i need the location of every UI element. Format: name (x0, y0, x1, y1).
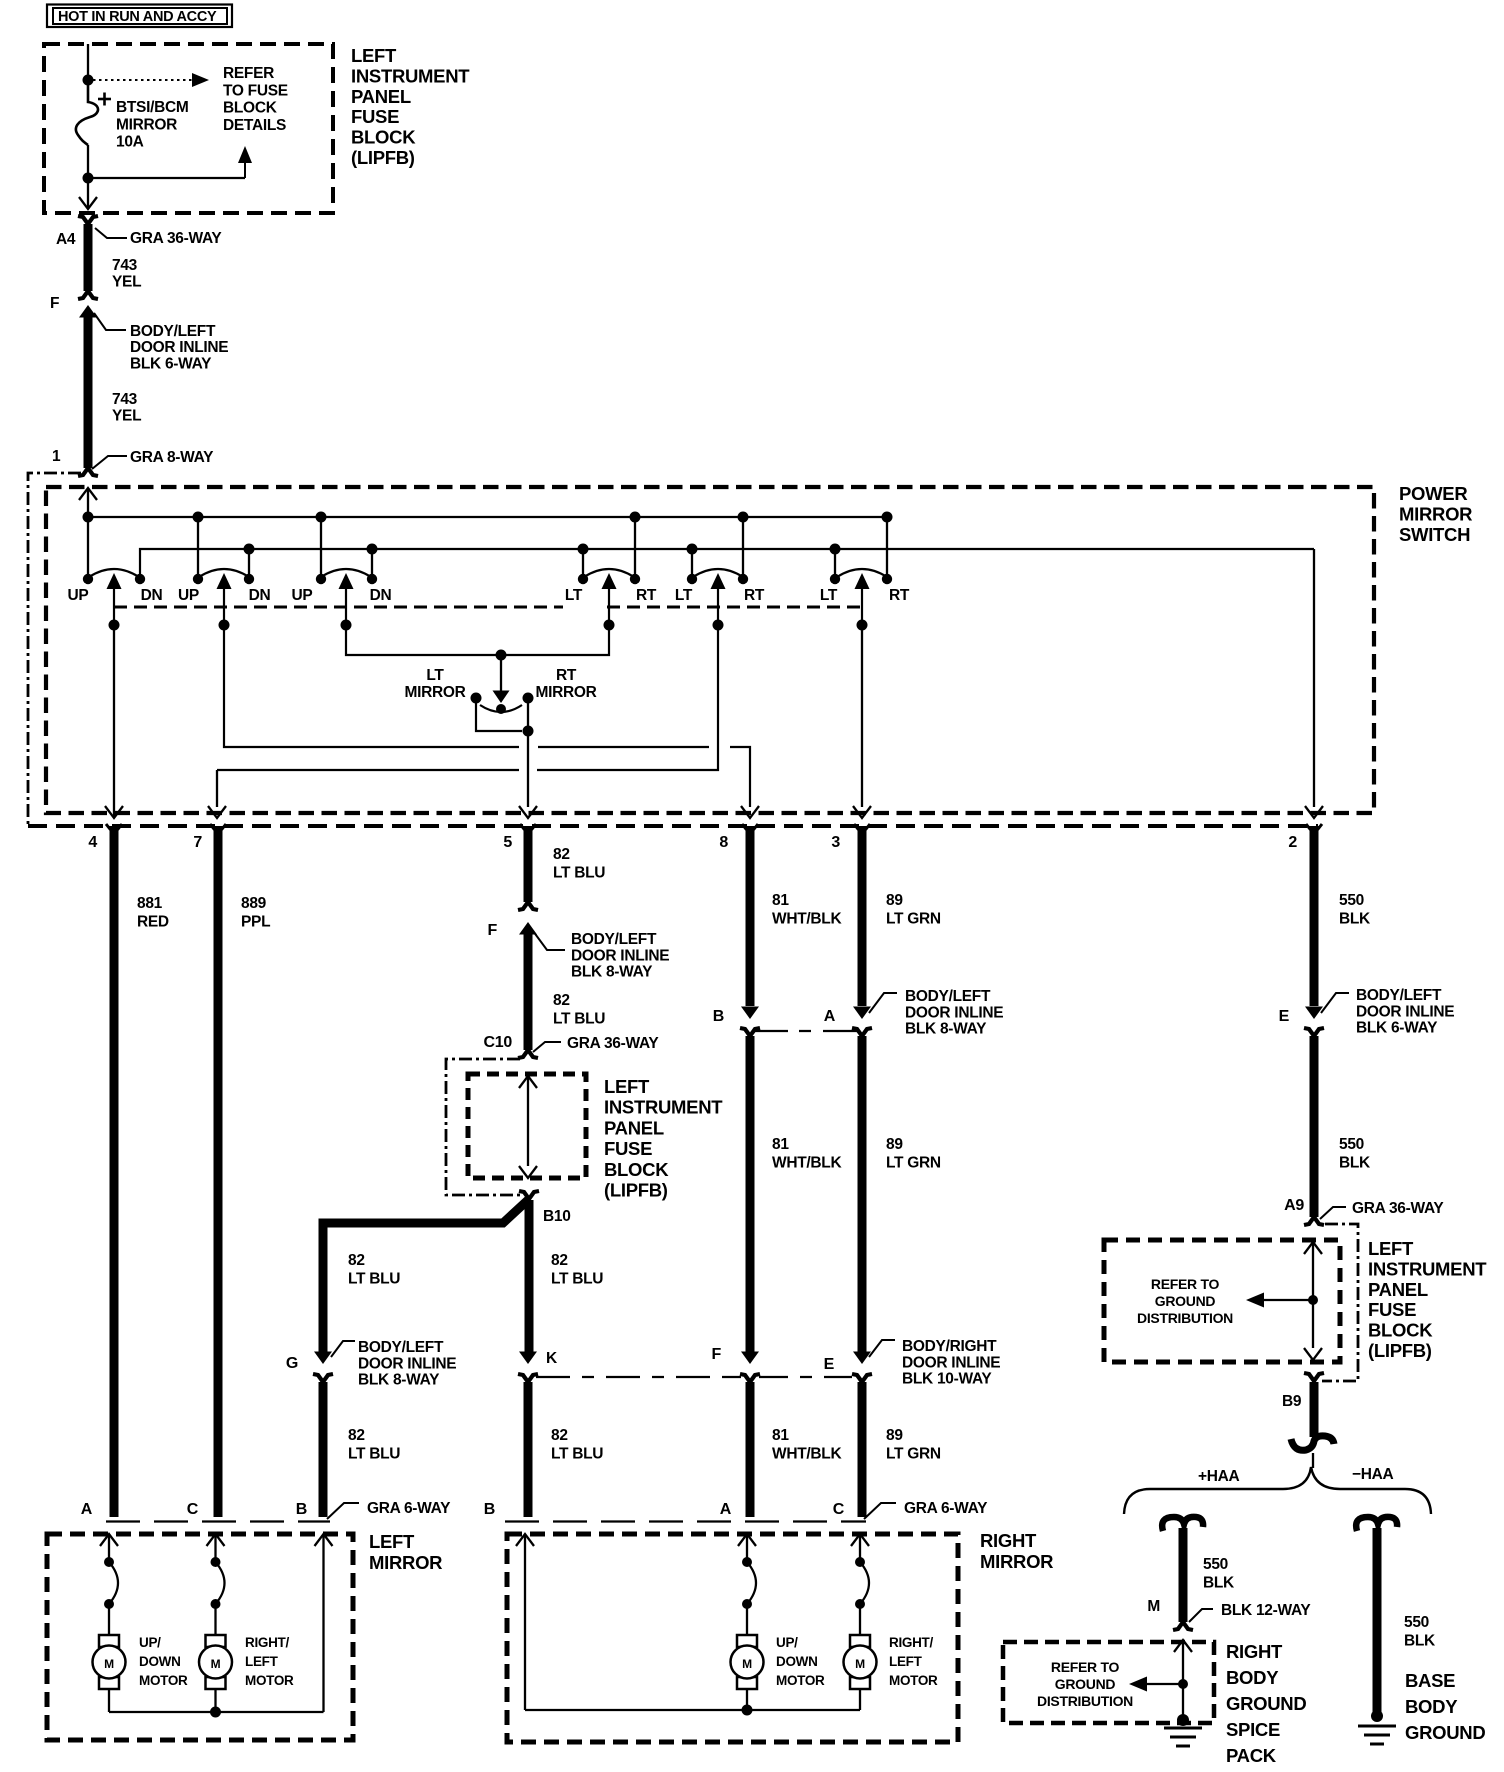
svg-text:BLK: BLK (1339, 1155, 1371, 1172)
spice pack junction dot (1178, 1679, 1188, 1689)
svg-text:MOTOR: MOTOR (889, 1673, 938, 1688)
svg-text:GRA 6-WAY: GRA 6-WAY (904, 1500, 988, 1517)
refer-to-fuse-block arrow 2 (90, 177, 245, 179)
svg-text:FUSE: FUSE (351, 106, 399, 127)
svg-text:DISTRIBUTION: DISTRIBUTION (1137, 1310, 1233, 1326)
wire 881 RED (pin4) (110, 826, 119, 1517)
right mirror pin A wire + switch (738, 1534, 756, 1546)
ground wire left hook (1162, 1517, 1203, 1531)
svg-text:81: 81 (772, 1427, 789, 1444)
ground symbol base body (1371, 1710, 1383, 1722)
branch to G wire (323, 1199, 529, 1353)
wire 889 PPL (pin7) (214, 826, 223, 1517)
wire top bus to contact RT5 (742, 517, 744, 578)
LIPFB middle dash-dot contour (446, 1059, 521, 1195)
svg-text:(LIPFB): (LIPFB) (604, 1180, 668, 1201)
wire 89 LT GRN to right mirror C (858, 1382, 867, 1517)
svg-text:MIRROR: MIRROR (116, 116, 177, 133)
leader GRA 6-WAY right (864, 1503, 896, 1519)
svg-text:82: 82 (553, 992, 570, 1009)
brace +HAA/-HAA (1124, 1467, 1431, 1514)
spice pack entry arrow (1174, 1640, 1192, 1652)
svg-text:B: B (296, 1501, 307, 1518)
LIPFB right dashed box (1104, 1240, 1340, 1362)
wire to right body ground (1182, 1684, 1184, 1722)
pin wire top flare x=862 (854, 824, 870, 829)
svg-text:1: 1 (52, 448, 61, 465)
svg-text:PANEL: PANEL (604, 1117, 664, 1138)
leader GRA 36-WAY (C10) (533, 1042, 561, 1052)
bus dot 6 (882, 512, 893, 523)
second bus dot 2 (367, 544, 378, 555)
refer-to-fuse-block arrow (dotted) (93, 79, 196, 81)
LIPFB right internal junction dot (1308, 1295, 1318, 1305)
wire 81 WHT/BLK to right mirror A (746, 1382, 755, 1517)
refer-to-ground arrow (spice pack) (1142, 1683, 1183, 1685)
svg-text:82: 82 (348, 1252, 365, 1269)
svg-text:BASE: BASE (1405, 1670, 1455, 1691)
wire second bus to contact LT4 (582, 549, 584, 578)
up/down motor (right mirror) (737, 1635, 757, 1647)
connector F fishtail lower (740, 1374, 760, 1382)
svg-text:M: M (104, 1657, 114, 1671)
switch pivot 1 (left mirror up/down) (89, 569, 139, 577)
wire pivot4 to selector junction (505, 625, 609, 655)
connector E arrowhead (wire3) (853, 1352, 871, 1365)
LIPFB right internal wire (1304, 1242, 1322, 1254)
connector B arrowhead (741, 1007, 759, 1020)
svg-text:RIGHT/: RIGHT/ (889, 1635, 933, 1650)
svg-text:B9: B9 (1282, 1393, 1302, 1410)
wire pivot1 to pin4 (113, 625, 115, 818)
pin wire top flare x=1314 (1306, 824, 1322, 829)
svg-text:MIRROR: MIRROR (1399, 504, 1472, 525)
second bus dot 3 (578, 544, 589, 555)
svg-text:5: 5 (503, 834, 512, 851)
svg-text:DN: DN (141, 587, 163, 604)
svg-text:89: 89 (886, 892, 903, 909)
svg-text:889: 889 (241, 895, 267, 912)
right mirror pin C wire + switch (851, 1534, 869, 1546)
switch top bus (88, 516, 889, 518)
svg-text:BLOCK: BLOCK (223, 100, 278, 117)
pin wire top flare x=750 (742, 824, 758, 829)
svg-text:WHT/BLK: WHT/BLK (772, 1446, 842, 1463)
svg-text:LEFT: LEFT (369, 1531, 415, 1552)
svg-text:BLK 6-WAY: BLK 6-WAY (130, 355, 212, 372)
svg-text:LT GRN: LT GRN (886, 911, 941, 928)
svg-text:B: B (713, 1008, 724, 1025)
svg-text:M: M (855, 1657, 865, 1671)
connector E fishtail (wire2) (1304, 1028, 1324, 1036)
svg-text:LT: LT (426, 667, 444, 684)
svg-text:MIRROR: MIRROR (980, 1551, 1053, 1572)
svg-text:WHT/BLK: WHT/BLK (772, 1155, 842, 1172)
connector B10 fishtail (519, 1191, 539, 1199)
svg-text:F: F (712, 1346, 722, 1363)
svg-text:C: C (833, 1501, 845, 1518)
svg-text:B10: B10 (543, 1208, 571, 1225)
svg-text:BODY/RIGHT: BODY/RIGHT (902, 1338, 997, 1355)
svg-text:BODY/LEFT: BODY/LEFT (571, 931, 657, 948)
svg-text:DETAILS: DETAILS (223, 117, 286, 134)
svg-text:SPICE: SPICE (1226, 1719, 1280, 1740)
left instrument panel fuse block (LIPFB) box (44, 44, 333, 213)
right mirror bottom wire (746, 1689, 748, 1710)
svg-text:FUSE: FUSE (604, 1138, 652, 1159)
svg-text:INSTRUMENT: INSTRUMENT (351, 65, 470, 86)
svg-text:YEL: YEL (112, 274, 141, 291)
bus dot 2 (193, 512, 204, 523)
connector G fishtail lower (313, 1374, 333, 1382)
svg-text:BLOCK: BLOCK (1368, 1320, 1433, 1341)
leader GRA 6-WAY left (327, 1503, 359, 1519)
splice S3XX (1291, 1436, 1334, 1450)
svg-text:A: A (720, 1501, 732, 1518)
bus dot 5 (738, 512, 749, 523)
wire second bus to contact LT5 (691, 549, 693, 578)
LIPFB middle dashed box (468, 1074, 586, 1178)
connector GRA 6-WAY line left (106, 1520, 330, 1522)
svg-text:89: 89 (886, 1427, 903, 1444)
up/down motor (left mirror) (99, 1635, 119, 1647)
svg-text:LT: LT (820, 587, 838, 604)
svg-text:GROUND: GROUND (1155, 1293, 1216, 1309)
switch pivot 5 (693, 569, 743, 577)
switch pivot 4 (584, 569, 634, 577)
wire second bus to contact LT6 (834, 549, 836, 578)
wire 82 LT BLU to left mirror B (319, 1382, 328, 1517)
selector contact RT (523, 693, 534, 704)
LIPFB middle internal wire (519, 1076, 537, 1088)
svg-text:DOOR INLINE: DOOR INLINE (1356, 1003, 1454, 1020)
svg-text:8: 8 (719, 834, 728, 851)
right/left motor (right mirror) (850, 1635, 870, 1647)
svg-text:4: 4 (88, 834, 97, 851)
svg-text:PACK: PACK (1226, 1745, 1277, 1766)
svg-text:7: 7 (193, 834, 202, 851)
svg-text:743: 743 (112, 391, 138, 408)
svg-text:−HAA: −HAA (1352, 1466, 1394, 1483)
svg-text:BLOCK: BLOCK (604, 1159, 669, 1180)
connector A9 fishtail (1304, 1217, 1324, 1225)
svg-text:BLK: BLK (1339, 911, 1371, 928)
right/left motor (left mirror) (206, 1635, 226, 1647)
wire 743 YEL segment 2 (84, 316, 93, 468)
svg-text:E: E (1279, 1008, 1290, 1025)
svg-text:LT BLU: LT BLU (551, 1271, 603, 1288)
connector GRA 8-WAY dashed line (28, 824, 1318, 828)
leader BODY/LEFT (E wire2) (1321, 993, 1349, 1013)
wire second bus to contact DN2 (248, 549, 250, 578)
wire 81 WHT/BLK (pin8) seg1 (746, 826, 755, 1006)
wire 82 LT BLU (pin5) seg1 (524, 826, 533, 902)
svg-text:GRA 6-WAY: GRA 6-WAY (367, 1500, 451, 1517)
wire pivot5 to line B (537, 625, 718, 770)
svg-text:UP/: UP/ (139, 1635, 161, 1650)
leader BODY/LEFT DOOR INLINE (94, 313, 126, 330)
line A to pin 8 (730, 747, 750, 807)
connector F arrowhead (79, 305, 97, 318)
wire 82 LT BLU below B10 (525, 1200, 534, 1352)
wire bus to contact UP1 (87, 517, 89, 578)
right mirror box (507, 1534, 958, 1742)
svg-text:RT: RT (556, 667, 577, 684)
node junction top (83, 75, 94, 86)
svg-text:81: 81 (772, 1136, 789, 1153)
svg-text:BODY: BODY (1226, 1667, 1279, 1688)
right body ground spice pack box (1003, 1642, 1214, 1723)
connector K fishtail lower (518, 1374, 538, 1382)
wire 550 BLK (pin2) seg1 (1310, 826, 1319, 1006)
svg-text:BODY/LEFT: BODY/LEFT (130, 323, 216, 340)
svg-text:BLK 12-WAY: BLK 12-WAY (1221, 1602, 1311, 1619)
line B continue (217, 769, 519, 771)
svg-text:RT: RT (744, 587, 765, 604)
switch input arrow (79, 488, 97, 500)
ground wire right hook (1356, 1517, 1397, 1531)
svg-text:LEFT: LEFT (604, 1076, 650, 1097)
connector GRA 8-WAY dash-dot contour (28, 473, 81, 824)
svg-text:A4: A4 (56, 231, 76, 248)
wire pivot6 to pin 3 (861, 625, 863, 807)
wire pivot2 to line A (224, 625, 519, 747)
svg-text:YEL: YEL (112, 408, 141, 425)
wire 550 BLK base body ground (1373, 1528, 1382, 1714)
fuse BTSI/BCM MIRROR 10A (76, 83, 98, 145)
svg-text:RIGHT: RIGHT (980, 1530, 1037, 1551)
svg-text:POWER: POWER (1399, 483, 1467, 504)
svg-text:UP: UP (178, 587, 199, 604)
svg-text:550: 550 (1339, 1136, 1364, 1153)
second bus dot 1 (244, 544, 255, 555)
svg-text:(LIPFB): (LIPFB) (1368, 1340, 1432, 1361)
svg-text:REFER TO: REFER TO (1051, 1659, 1120, 1675)
left mirror pin C wire + switch (207, 1534, 225, 1546)
brace stem (1312, 1453, 1314, 1468)
svg-text:DISTRIBUTION: DISTRIBUTION (1037, 1693, 1133, 1709)
wire bus to contact UP2 (197, 517, 199, 578)
left mirror bottom junction dot (210, 1707, 221, 1718)
svg-text:LT BLU: LT BLU (553, 1011, 605, 1028)
svg-text:MOTOR: MOTOR (776, 1673, 825, 1688)
svg-text:BLOCK: BLOCK (351, 127, 416, 148)
switch pivot 2 (199, 569, 249, 577)
pin wire top flare x=218 (210, 824, 226, 829)
switch pivot 3 (321, 569, 371, 577)
svg-text:GROUND: GROUND (1405, 1722, 1485, 1743)
svg-text:RED: RED (137, 914, 169, 931)
svg-text:GROUND: GROUND (1226, 1693, 1306, 1714)
svg-text:LT BLU: LT BLU (348, 1446, 400, 1463)
svg-text:MOTOR: MOTOR (245, 1673, 294, 1688)
leader GRA 36-WAY (A9) (1320, 1207, 1346, 1219)
selector LT contact drop (476, 698, 522, 731)
right mirror bottom junction dot (742, 1705, 753, 1716)
wire 89 LT GRN (pin3) seg1 (858, 826, 867, 1006)
svg-text:DOWN: DOWN (776, 1654, 818, 1669)
svg-text:C: C (187, 1501, 199, 1518)
leader BODY/LEFT (A) (869, 993, 897, 1013)
wire 550 BLK below B9 (1310, 1382, 1319, 1437)
svg-text:TO FUSE: TO FUSE (223, 82, 288, 99)
connector E arrowhead (wire2) (1305, 1007, 1323, 1020)
connector M fishtail (1173, 1622, 1193, 1630)
svg-text:10A: 10A (116, 134, 144, 151)
selector contact LT (471, 693, 482, 704)
svg-text:89: 89 (886, 1136, 903, 1153)
left mirror bottom wire (108, 1689, 110, 1712)
svg-text:G: G (286, 1355, 298, 1372)
svg-text:LEFT: LEFT (1368, 1238, 1414, 1259)
connector E fishtail lower (852, 1374, 872, 1382)
svg-text:LT GRN: LT GRN (886, 1446, 941, 1463)
power mirror switch box (46, 487, 1374, 813)
svg-text:82: 82 (553, 846, 570, 863)
connector A fishtail (852, 1028, 872, 1036)
wire 89 LT GRN seg2 (858, 1036, 867, 1352)
connector A4->F fishtail (78, 291, 98, 299)
svg-text:REFER: REFER (223, 65, 274, 82)
svg-text:550: 550 (1203, 1556, 1228, 1573)
selector wiper arc (480, 705, 522, 712)
svg-text:UP/: UP/ (776, 1635, 798, 1650)
connector A4 fishtail (78, 216, 98, 224)
pin wire top flare x=114 (106, 824, 122, 829)
svg-text:BLK 10-WAY: BLK 10-WAY (902, 1371, 992, 1388)
connector F arrowhead (wire5) (519, 922, 537, 935)
svg-text:PANEL: PANEL (351, 86, 411, 107)
selector arrow (500, 655, 502, 692)
svg-text:INSTRUMENT: INSTRUMENT (1368, 1258, 1487, 1279)
svg-text:BODY/LEFT: BODY/LEFT (358, 1339, 444, 1356)
leader GRA 8-WAY (92, 456, 127, 469)
svg-text:GRA 36-WAY: GRA 36-WAY (1352, 1200, 1444, 1217)
wire to box bottom (87, 178, 89, 207)
wire 81 WHT/BLK seg2 (746, 1036, 755, 1352)
left mirror pin B wire (315, 1534, 333, 1546)
svg-text:LEFT: LEFT (351, 45, 397, 66)
second bus dot 4 (687, 544, 698, 555)
svg-text:FUSE: FUSE (1368, 1299, 1416, 1320)
connector G arrowhead (314, 1352, 332, 1365)
wire 82 LT BLU seg2 (524, 933, 533, 1050)
connector B9 fishtail (1304, 1373, 1324, 1381)
line B to pin 7 (216, 770, 218, 807)
label box HOT IN RUN AND ACCY (47, 5, 232, 28)
svg-text:LT: LT (565, 587, 583, 604)
connector F arrowhead (wire8) (741, 1352, 759, 1365)
wire top bus to contact RT6 (886, 517, 888, 578)
wire selector to pin 5 (527, 731, 529, 807)
wire pivot3 to selector junction (346, 625, 497, 655)
bus dot 4 (630, 512, 641, 523)
svg-text:LEFT: LEFT (245, 1654, 279, 1669)
node junction bottom (83, 173, 94, 184)
svg-text:81: 81 (772, 892, 789, 909)
svg-text:RIGHT/: RIGHT/ (245, 1635, 289, 1650)
wire top bus to contact RT4 (634, 517, 636, 578)
svg-text:K: K (546, 1350, 558, 1367)
svg-text:82: 82 (551, 1427, 568, 1444)
svg-text:82: 82 (551, 1252, 568, 1269)
svg-text:M: M (211, 1657, 221, 1671)
svg-text:LEFT: LEFT (889, 1654, 923, 1669)
svg-text:BLK: BLK (1404, 1633, 1436, 1650)
svg-text:RT: RT (889, 587, 910, 604)
svg-text:A: A (824, 1008, 836, 1025)
bus dot 3 (316, 512, 327, 523)
wire 550 BLK seg2 (1310, 1036, 1319, 1217)
svg-text:DOOR INLINE: DOOR INLINE (130, 339, 228, 356)
svg-text:LT BLU: LT BLU (348, 1271, 400, 1288)
connector 1 end fishtail (78, 468, 98, 476)
svg-text:SWITCH: SWITCH (1399, 524, 1470, 545)
connector C10 fishtail (518, 1050, 538, 1058)
svg-text:550: 550 (1339, 892, 1364, 909)
svg-text:F: F (50, 295, 59, 312)
svg-text:743: 743 (112, 257, 138, 274)
svg-text:BTSI/BCM: BTSI/BCM (116, 99, 189, 116)
ground symbol right body (1177, 1714, 1189, 1726)
svg-text:+HAA: +HAA (1198, 1468, 1240, 1485)
svg-text:MOTOR: MOTOR (139, 1673, 188, 1688)
svg-text:C10: C10 (484, 1034, 513, 1051)
wire 743 YEL segment 1 (84, 224, 93, 291)
svg-text:GRA 8-WAY: GRA 8-WAY (130, 449, 214, 466)
svg-text:DN: DN (370, 587, 392, 604)
connector B-A dashed line (753, 1030, 857, 1032)
selector junction dot (496, 650, 507, 661)
svg-text:DOWN: DOWN (139, 1654, 181, 1669)
left mirror pin A wire + switch (100, 1534, 118, 1546)
svg-text:82: 82 (348, 1427, 365, 1444)
leader BODY/LEFT (G) (331, 1341, 355, 1357)
wire 550 BLK to M connector (1179, 1528, 1188, 1622)
svg-text:BLK 8-WAY: BLK 8-WAY (358, 1372, 440, 1389)
svg-text:BLK 8-WAY: BLK 8-WAY (905, 1021, 987, 1038)
LIPFB right dash-dot contour (1322, 1224, 1358, 1381)
svg-text:3: 3 (831, 834, 840, 851)
switch linkage dashed line (114, 606, 563, 609)
connector B fishtail (740, 1028, 760, 1036)
second bus dot 5 (830, 544, 841, 555)
connector BODY/RIGHT dashed line (536, 1376, 741, 1378)
switch second bus (140, 549, 1314, 578)
svg-text:BODY: BODY (1405, 1696, 1458, 1717)
svg-text:WHT/BLK: WHT/BLK (772, 911, 842, 928)
contact dots row (83, 574, 93, 584)
svg-text:M: M (1147, 1598, 1160, 1615)
connector GRA 6-WAY line right (505, 1520, 866, 1522)
leader GRA 36-WAY (95, 228, 127, 238)
selector RT contact drop (527, 698, 529, 731)
svg-text:LT: LT (675, 587, 693, 604)
connector K arrowhead (519, 1352, 537, 1365)
svg-text:BLK 8-WAY: BLK 8-WAY (571, 964, 653, 981)
svg-text:DOOR INLINE: DOOR INLINE (358, 1355, 456, 1372)
svg-text:E: E (824, 1356, 835, 1373)
svg-text:A: A (81, 1501, 93, 1518)
svg-text:DOOR INLINE: DOOR INLINE (571, 947, 669, 964)
svg-text:REFER TO: REFER TO (1151, 1276, 1220, 1292)
svg-text:RT: RT (636, 587, 657, 604)
svg-text:BLK 6-WAY: BLK 6-WAY (1356, 1020, 1438, 1037)
wire second bus to pin 2 (1313, 549, 1315, 807)
selector output junction dot (523, 726, 534, 737)
wire fuse to lower node (87, 145, 89, 178)
svg-text:GROUND: GROUND (1055, 1676, 1116, 1692)
